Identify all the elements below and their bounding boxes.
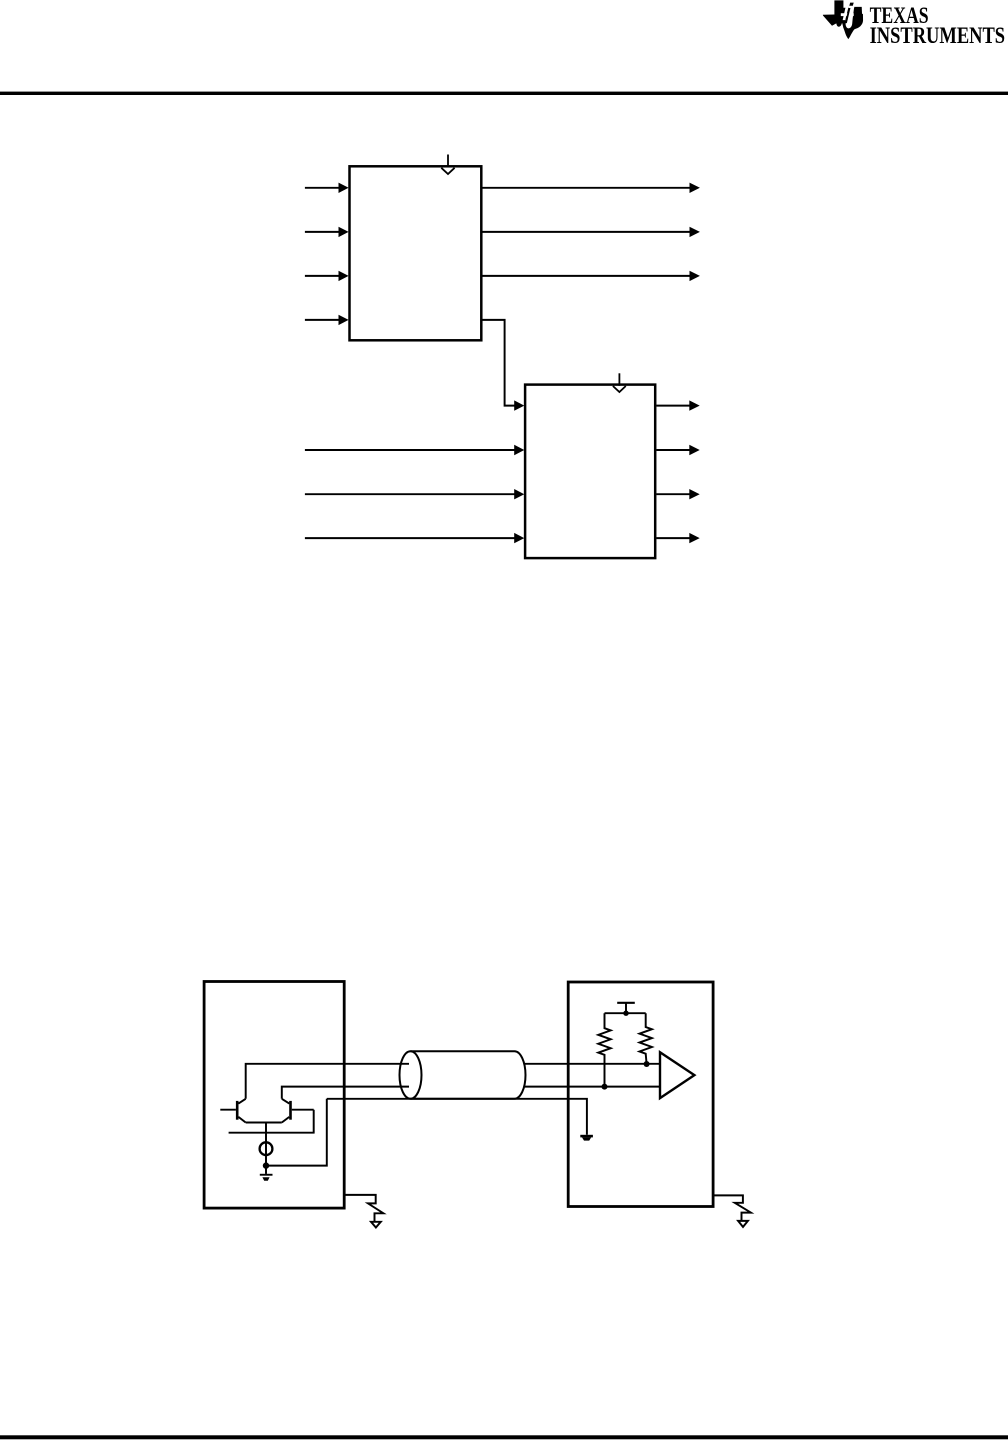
input arrow U2 pin 4 <box>305 533 524 543</box>
junction dot on wire A <box>644 1061 650 1067</box>
output arrow U2 out 4 <box>657 533 700 543</box>
clock input of U2 <box>613 373 626 392</box>
input arrow U2 pin 2 <box>305 445 524 455</box>
block U1 <box>350 166 482 340</box>
wire line A right segment <box>524 1063 660 1065</box>
wire line B left segment <box>282 1087 409 1099</box>
wire line A left segment <box>246 1064 409 1099</box>
transistor Q1 base bar <box>236 1101 239 1120</box>
chassis ground right <box>713 1195 751 1227</box>
junction dot top <box>623 1011 628 1016</box>
shield ground symbol <box>580 1135 593 1141</box>
receiver amplifier U3 <box>660 1052 694 1098</box>
clock input of U1 <box>441 155 454 175</box>
resistor top bar <box>605 1012 646 1014</box>
output arrow U1 out 2 <box>482 227 700 237</box>
tail vertical wire <box>265 1123 267 1174</box>
transistor Q2 leads <box>282 1099 314 1123</box>
header rule <box>0 92 1008 95</box>
input arrow U2 pin 3 <box>305 489 524 499</box>
svg-text:INSTRUMENTS: INSTRUMENTS <box>870 23 1006 48</box>
output arrow U1 out 3 <box>482 271 700 281</box>
TI logo Texas state emblem <box>823 0 863 39</box>
left device box (driver) <box>204 982 344 1209</box>
current source I1 <box>260 1142 273 1155</box>
terminal T <box>617 1003 635 1013</box>
output arrow U2 out 1 <box>657 400 700 410</box>
wire line B right segment <box>524 1086 660 1088</box>
junction dot tail <box>263 1162 269 1168</box>
cable left ellipse <box>400 1051 422 1099</box>
wire tail to shield <box>266 1099 327 1166</box>
junction dot on wire B <box>602 1084 608 1090</box>
input arrow U1 pin 4 <box>305 315 349 325</box>
chassis ground left <box>344 1195 383 1228</box>
footer rule <box>0 1435 1008 1439</box>
cable cylinder body <box>411 1051 526 1099</box>
Q2 base input stub <box>229 1110 315 1133</box>
input arrow U1 pin 1 <box>305 183 349 193</box>
transistor Q2 base bar <box>289 1101 292 1120</box>
output arrow U1 out 1 <box>482 183 700 193</box>
emitter rail <box>246 1122 282 1124</box>
block U2 <box>525 385 655 558</box>
wire U1 to U2 <box>482 320 524 411</box>
ground symbol left <box>260 1174 273 1181</box>
termination resistor R1 <box>598 1013 610 1087</box>
transistor Q1 leads <box>220 1099 245 1123</box>
output arrow U2 out 3 <box>657 489 700 499</box>
input arrow U1 pin 3 <box>305 271 349 281</box>
output arrow U2 out 2 <box>657 445 700 455</box>
termination resistor R2 <box>640 1013 652 1064</box>
input arrow U1 pin 2 <box>305 227 349 237</box>
right device box (receiver) <box>568 982 713 1207</box>
shield wire <box>327 1099 587 1135</box>
